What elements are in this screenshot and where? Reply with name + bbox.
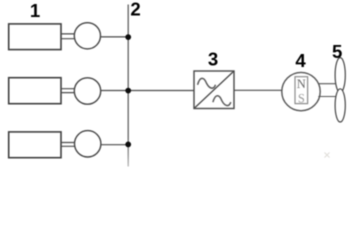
engine box E2 (middle prime mover) [9, 78, 61, 104]
wire G1 to bus [100, 36, 128, 38]
junction node row1 [125, 34, 131, 40]
svg-text:5: 5 [332, 41, 342, 62]
propeller blade upper (ellipse) [335, 58, 345, 93]
svg-text:S: S [298, 91, 305, 105]
converter U3 AC tilde (input side) [198, 78, 216, 88]
shaft line lower (motor to propeller hub) [318, 96, 336, 98]
svg-text:1: 1 [30, 0, 40, 21]
engine box E1 (top prime mover) [9, 24, 61, 50]
coupling shaft E2-G2 (double line) [61, 89, 75, 93]
wire G2 to bus and on to converter [101, 90, 194, 92]
svg-text:2: 2 [130, 0, 140, 20]
svg-text:N: N [297, 77, 306, 91]
junction node row2 [125, 88, 131, 94]
engine box E3 (bottom prime mover) [9, 132, 61, 158]
coupling shaft E1-G1 (double line) [61, 34, 75, 39]
converter U3 diagonal [194, 71, 234, 109]
magnet rectangle inside motor [295, 77, 308, 104]
propeller blade lower (ellipse) [335, 89, 345, 122]
motor M4 (PM motor circle) [282, 72, 320, 110]
converter U3 AC tilde (output side) [213, 96, 231, 106]
shaft line upper (motor to propeller hub) [319, 83, 337, 85]
svg-text:4: 4 [295, 50, 306, 71]
svg-text:3: 3 [208, 48, 218, 69]
junction node row3 [125, 142, 131, 148]
converter U3 (frequency converter box) [194, 71, 234, 109]
faint watermark x mark [325, 153, 330, 158]
generator G3 (circle) [75, 131, 101, 157]
generator G1 (circle) [74, 23, 100, 49]
coupling shaft E3-G3 (double line) [61, 143, 75, 147]
generator G2 (circle) [74, 78, 100, 104]
bus 2 (vertical busbar) [127, 5, 129, 167]
wire G3 to bus [101, 144, 128, 146]
wire converter to motor [234, 89, 282, 91]
